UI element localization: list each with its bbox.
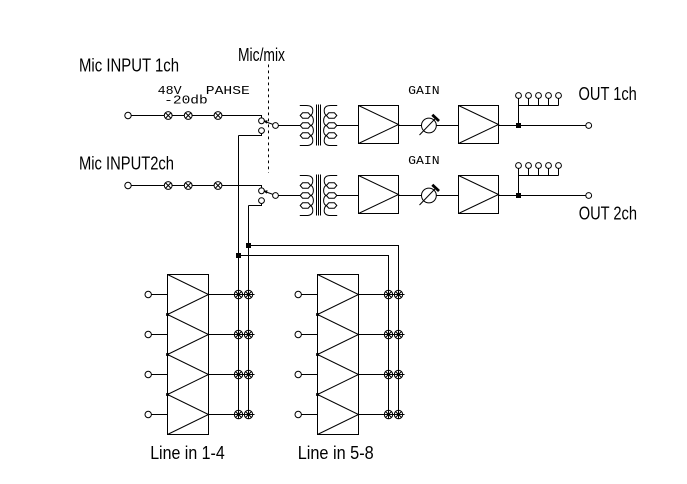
switch 48V ch2 [164, 182, 172, 190]
terminal J2 mic input 2 [125, 182, 131, 188]
svg-text:Mic INPUT2ch: Mic INPUT2ch [79, 153, 174, 173]
transformer T2 left winding [300, 176, 314, 216]
wire ch2 pole to transformer [278, 195, 300, 197]
crosspoint switch line3 busB [244, 370, 252, 378]
crosspoint switch line4 busB [244, 410, 252, 418]
label GAIN ch1 [408, 84, 440, 98]
switch SW1 mic/mix ch1 upper contact [259, 118, 265, 124]
wire bus B vertical [248, 206, 250, 420]
svg-text:GAIN: GAIN [408, 154, 440, 168]
node dot line1-2 [166, 313, 169, 316]
switch PAHSE ch2 [214, 182, 222, 190]
crosspoint switch line8 busA [384, 410, 392, 418]
wire junction ch2 up to connector [518, 168, 520, 193]
op-amp line7 [318, 355, 359, 395]
node junction bus A to line5-8 [236, 253, 241, 258]
terminal line in 1 [145, 291, 151, 297]
switch 48V ch1 [164, 112, 172, 120]
svg-text:OUT 1ch: OUT 1ch [579, 84, 637, 104]
op-amp line6 [318, 315, 359, 355]
label Line in 1-4 [150, 443, 225, 463]
label PAHSE [206, 84, 250, 98]
label -20db [164, 94, 208, 108]
wire mic1 input chain [131, 116, 262, 119]
terminal OUT 2ch [586, 193, 592, 199]
crosspoint switch line5 busB [394, 290, 402, 298]
wire line2 input [151, 334, 167, 336]
wire ch2 lower contact to bus B [249, 203, 262, 205]
crosspoint switch line2 busB [244, 330, 252, 338]
wire line5 input [301, 294, 317, 296]
wire junction ch2 to output terminal [521, 195, 586, 197]
switch SW1 mic/mix ch1 pole [273, 123, 279, 129]
terminal line in 5 [295, 291, 301, 297]
label Line in 5-8 [298, 443, 374, 463]
crosspoint switch line2 busA [234, 330, 242, 338]
label Mic/mix [238, 45, 285, 65]
svg-text:GAIN: GAIN [408, 84, 440, 98]
crosspoint switch line7 busB [394, 370, 402, 378]
svg-text:Mic INPUT 1ch: Mic INPUT 1ch [79, 55, 179, 75]
wire junction ch1 up to connector [518, 98, 520, 123]
crosspoint switch line3 busA [234, 370, 242, 378]
wire A2 to junction ch1 [499, 125, 519, 127]
label OUT 2ch [579, 204, 637, 224]
svg-text:-20db: -20db [164, 94, 208, 108]
switch PAHSE ch1 [214, 112, 222, 120]
node dot line2-3 [166, 353, 169, 356]
op-amp A1 ch1 [359, 106, 399, 144]
transformer T1 core [317, 105, 321, 146]
switch SW1 lever arrow [263, 120, 273, 124]
transformer T2 right winding [324, 176, 338, 216]
terminal line in 3 [145, 371, 151, 377]
wire junction ch1 to output terminal [521, 125, 586, 127]
node dot line7-8 [316, 393, 319, 396]
crosspoint switch line6 busB [394, 330, 402, 338]
terminal line in 4 [145, 411, 151, 417]
wire line4 output [209, 414, 255, 416]
wire line1 input [151, 294, 167, 296]
node junction bus B to line5-8 [246, 243, 251, 248]
wire ch1 lower contact to bus A [239, 133, 262, 135]
wire ch1 pole to transformer [278, 125, 300, 127]
node junction ch1 output [516, 123, 521, 128]
svg-text:PAHSE: PAHSE [206, 84, 250, 98]
wire line7 input [301, 374, 317, 376]
connector header OUT1 [516, 93, 562, 106]
crosspoint switch line8 busB [394, 410, 402, 418]
terminal J1 mic input 1 [125, 112, 131, 118]
wire A4 to junction ch2 [499, 195, 519, 197]
wire bus A vertical [238, 136, 240, 420]
label Mic INPUT2ch [79, 153, 174, 173]
wire line8 input [301, 414, 317, 416]
crosspoint switch line4 busA [234, 410, 242, 418]
label GAIN ch2 [408, 154, 440, 168]
op-amp line8 [318, 395, 359, 435]
op-amp A4 ch2 [459, 176, 499, 214]
wire bus B branch to right outer bus [249, 246, 399, 420]
op-amp line3 [168, 355, 209, 395]
terminal line in 7 [295, 371, 301, 377]
crosspoint switch line6 busA [384, 330, 392, 338]
crosspoint switch line5 busA [384, 290, 392, 298]
block Line in 5-8 box [318, 275, 359, 435]
wire line6 input [301, 334, 317, 336]
crosspoint switch line1 busA [234, 290, 242, 298]
node dot line3-4 [166, 393, 169, 396]
wire pot to amp A2 [436, 125, 458, 127]
svg-text:Line in 5-8: Line in 5-8 [298, 443, 374, 463]
switch SW2 mic/mix ch2 pole [273, 193, 279, 199]
crosspoint switch line7 busA [384, 370, 392, 378]
switch SW2 mic/mix ch2 lower contact [259, 198, 265, 204]
label OUT 1ch [579, 84, 637, 104]
op-amp line2 [168, 315, 209, 355]
connector header OUT2 [516, 163, 562, 176]
switch SW2 lever arrow [263, 190, 273, 194]
wire line4 input [151, 414, 167, 416]
svg-text:Line in 1-4: Line in 1-4 [150, 443, 225, 463]
label Mic INPUT 1ch [79, 55, 179, 75]
potentiometer GAIN ch2 [420, 185, 440, 205]
terminal OUT 1ch [586, 123, 592, 129]
op-amp line4 [168, 395, 209, 435]
potentiometer GAIN ch1 [420, 115, 440, 135]
switch -20db ch2 [184, 182, 192, 190]
terminal line in 6 [295, 331, 301, 337]
wire A3 to pot ch2 [399, 195, 422, 197]
transformer T1 left winding [300, 106, 314, 146]
wire line5 output [359, 294, 405, 296]
dashed mic/mix boundary line [268, 65, 270, 174]
wire line1 output [209, 294, 255, 296]
switch SW1 mic/mix ch1 lower contact [259, 128, 265, 134]
op-amp line1 [168, 275, 209, 315]
wire line8 output [359, 414, 405, 416]
terminal line in 8 [295, 411, 301, 417]
node junction ch2 output [516, 193, 521, 198]
terminal line in 2 [145, 331, 151, 337]
transformer T1 right winding [324, 106, 338, 146]
op-amp line5 [318, 275, 359, 315]
wire pot to amp A4 [436, 195, 458, 197]
svg-text:OUT 2ch: OUT 2ch [579, 204, 637, 224]
wire T2 to amp A3 [337, 195, 359, 197]
switch SW2 mic/mix ch2 upper contact [259, 188, 265, 194]
node dot line6-7 [316, 353, 319, 356]
wire line3 input [151, 374, 167, 376]
node dot line5-6 [316, 313, 319, 316]
op-amp A2 ch1 [459, 106, 499, 144]
wire T1 to amp A1 [337, 125, 359, 127]
block Line in 1-4 box [168, 275, 209, 435]
svg-text:Mic/mix: Mic/mix [238, 45, 285, 65]
switch -20db ch1 [184, 112, 192, 120]
wire line2 output [209, 334, 255, 336]
wire A1 to pot [399, 125, 422, 127]
wire line3 output [209, 374, 255, 376]
transformer T2 core [317, 175, 321, 216]
wire bus A branch to right inner bus [239, 256, 389, 420]
label 48V [158, 84, 183, 98]
op-amp A3 ch2 [359, 176, 399, 214]
wire line6 output [359, 334, 405, 336]
crosspoint switch line1 busB [244, 290, 252, 298]
wire line7 output [359, 374, 405, 376]
wire mic2 input chain [131, 186, 262, 189]
